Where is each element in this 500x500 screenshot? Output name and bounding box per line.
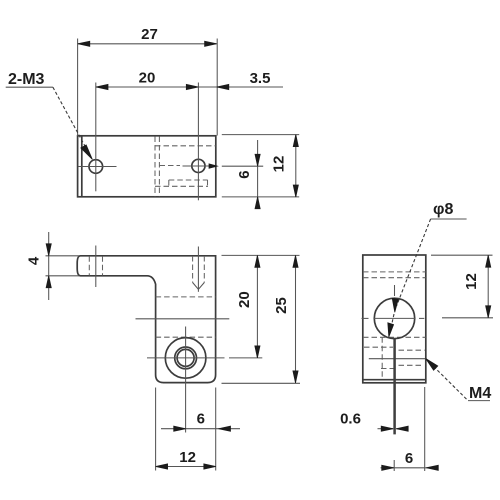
svg-text:12: 12 bbox=[271, 156, 288, 173]
svg-text:2-M3: 2-M3 bbox=[8, 71, 45, 88]
svg-text:20: 20 bbox=[236, 291, 253, 308]
svg-text:6: 6 bbox=[405, 450, 413, 467]
svg-text:20: 20 bbox=[139, 70, 156, 87]
svg-text:6: 6 bbox=[197, 411, 205, 428]
svg-text:φ8: φ8 bbox=[433, 201, 453, 218]
svg-text:6: 6 bbox=[236, 170, 253, 178]
svg-text:25: 25 bbox=[273, 297, 290, 314]
svg-text:M4: M4 bbox=[469, 385, 491, 402]
svg-text:0.6: 0.6 bbox=[340, 411, 361, 428]
svg-text:12: 12 bbox=[463, 273, 480, 290]
svg-text:12: 12 bbox=[179, 449, 196, 466]
svg-text:3.5: 3.5 bbox=[250, 70, 271, 87]
svg-text:27: 27 bbox=[141, 26, 158, 43]
svg-text:4: 4 bbox=[26, 256, 43, 265]
